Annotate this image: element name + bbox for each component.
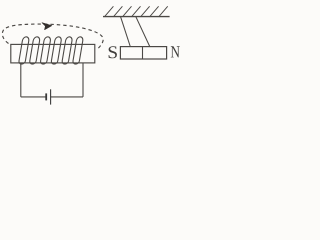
label N pole [171,46,180,57]
ceiling line [103,16,170,18]
magnet body [120,47,166,59]
coil turn 1 [18,37,29,64]
coil turn 3 [40,37,51,64]
left lead wire [20,63,22,97]
ceiling hatch marks [104,6,167,16]
coil turn 4 [51,37,62,64]
coil turn 2 [29,37,40,64]
magnet pole divider [142,47,144,60]
left string [121,17,131,47]
solenoid body [11,44,95,63]
battery long plate [50,89,52,104]
bottom wire right [51,96,83,98]
bottom wire left [21,96,46,98]
battery short plate [45,93,47,100]
arrow on field line [42,23,52,30]
field line (dashed loop) [2,24,103,50]
coil turn 5 [62,37,73,64]
coil turn 6 [72,37,83,64]
right lead wire [82,63,84,97]
label S pole [109,46,117,58]
right string [136,17,150,47]
